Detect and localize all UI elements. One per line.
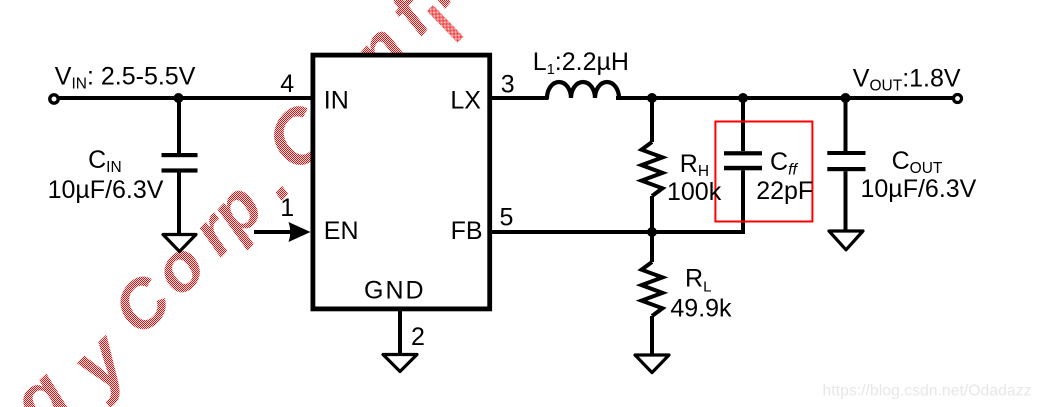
- svg-text:IN: IN: [324, 87, 349, 115]
- svg-text:FB: FB: [451, 217, 483, 245]
- svg-text:2: 2: [411, 323, 425, 351]
- svg-text:10µF/6.3V: 10µF/6.3V: [861, 175, 977, 203]
- svg-text:EN: EN: [324, 217, 359, 245]
- svg-text:1: 1: [280, 194, 294, 222]
- svg-text:VOUT:1.8V: VOUT:1.8V: [853, 64, 961, 94]
- svg-text:3: 3: [501, 70, 515, 98]
- svg-text:10µF/6.3V: 10µF/6.3V: [48, 176, 164, 204]
- svg-text:49.9k: 49.9k: [670, 294, 732, 322]
- svg-text:https://blog.csdn.net/Odadazz: https://blog.csdn.net/Odadazz: [823, 383, 1032, 400]
- svg-text:LX: LX: [450, 86, 481, 114]
- svg-text:5: 5: [500, 204, 514, 232]
- svg-text:22pF: 22pF: [756, 177, 813, 205]
- svg-text:GND: GND: [364, 276, 426, 304]
- svg-text:4: 4: [280, 70, 294, 98]
- svg-text:100k: 100k: [667, 178, 722, 206]
